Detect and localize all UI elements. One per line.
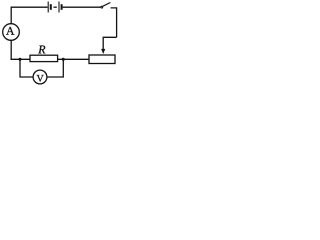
voltmeter branch left: down and right <box>20 59 33 77</box>
label A (ammeter) <box>6 27 14 35</box>
resistor R box <box>30 55 58 61</box>
label V (voltmeter) <box>37 75 44 82</box>
battery cell 2 long plate <box>58 2 60 13</box>
wire battery to switch <box>63 6 101 8</box>
ammeter A circle <box>3 24 20 41</box>
arrowhead onto rheostat <box>101 49 105 54</box>
switch S pivot contact <box>101 6 103 8</box>
junction dot left of R <box>18 58 21 61</box>
wire top-left: ammeter top to battery <box>11 7 47 24</box>
battery cell 2 short thick plate <box>61 4 63 10</box>
rheostat box <box>89 55 115 64</box>
voltmeter V circle <box>33 70 47 84</box>
switch lever (open) <box>103 3 111 7</box>
junction dot right of R <box>62 58 65 61</box>
wire between cells <box>54 6 57 8</box>
battery cell 1 short thick plate <box>50 4 52 10</box>
wire R left to main left wire <box>11 58 30 60</box>
wire switch to top-right corner, down right side <box>111 8 117 37</box>
battery cell 1 long plate <box>47 2 49 13</box>
left vertical wire ammeter bottom to R wire <box>10 40 12 60</box>
label R (resistor) <box>38 46 45 54</box>
voltmeter branch right: up from circle to junction <box>47 59 63 77</box>
wire rheostat left terminal to R resistor <box>58 58 89 60</box>
wire step left and down to rheostat wiper <box>103 37 116 49</box>
